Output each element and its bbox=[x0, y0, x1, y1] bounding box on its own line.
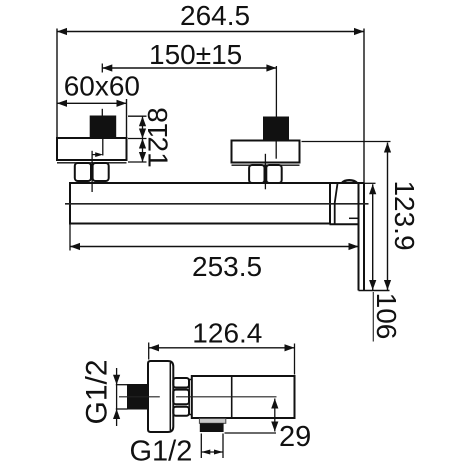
right inlet centerline inside block bbox=[275, 141, 277, 159]
handle top extension to 106 dim bbox=[364, 182, 376, 184]
svg-text:21: 21 bbox=[143, 137, 174, 168]
left inlet centerline above bbox=[101, 109, 103, 116]
tick at left end of 150±15 bbox=[101, 64, 103, 73]
handle housing right edge / lever left edge bbox=[358, 183, 360, 291]
svg-text:18: 18 bbox=[142, 107, 173, 138]
dim 126.4 line bbox=[149, 347, 295, 349]
svg-text:29: 29 bbox=[279, 421, 311, 453]
adapter diagonal at bar end bbox=[335, 184, 338, 204]
right nut centerline bbox=[264, 154, 266, 190]
extension line x126.5 bbox=[126, 99, 128, 139]
wall flange disc bbox=[148, 361, 173, 432]
dim 123.9 top extension bbox=[302, 141, 391, 143]
bar centerline bbox=[65, 203, 369, 205]
G1/2 inlet dim shaft and arrows bbox=[116, 368, 118, 426]
dim 253.5 left extension bbox=[69, 224, 71, 251]
outlet dim extension lines bbox=[200, 434, 202, 459]
left hex nut facet B bbox=[93, 163, 109, 181]
left nut centerline bbox=[91, 151, 93, 192]
dim 123.9 line bbox=[387, 143, 389, 291]
dim 18/21 extension lines bbox=[128, 115, 147, 117]
right wall plate bbox=[232, 141, 300, 163]
svg-text:106: 106 bbox=[371, 293, 402, 340]
svg-text:150±15: 150±15 bbox=[149, 39, 242, 70]
lever bottom + extension line bbox=[359, 290, 390, 292]
outlet diameter double arrow bbox=[201, 451, 223, 453]
right inlet square (black) bbox=[263, 117, 289, 141]
left wall plate lower flange line bbox=[57, 162, 127, 164]
body divider line bbox=[231, 376, 233, 418]
svg-text:60x60: 60x60 bbox=[64, 71, 140, 102]
left inlet square (black) bbox=[90, 116, 117, 139]
dim 29 bottom extension bbox=[225, 432, 277, 434]
axis centerline bbox=[119, 396, 160, 398]
valve body bbox=[192, 376, 295, 418]
mixer body bar bbox=[70, 183, 330, 224]
right hex nut facet A bbox=[249, 165, 264, 183]
dim 106 tail below bbox=[372, 292, 374, 342]
side hex nut facet bottom bbox=[173, 407, 189, 416]
svg-text:126.4: 126.4 bbox=[192, 318, 262, 349]
dim 18/21 shaft bbox=[142, 116, 144, 162]
left eccentric offset arrow bbox=[92, 154, 96, 156]
svg-text:264.5: 264.5 bbox=[180, 0, 250, 31]
dim 106 line bbox=[372, 184, 374, 290]
housing bottom bbox=[330, 223, 359, 225]
extension line right x364 bbox=[363, 29, 365, 184]
svg-text:123.9: 123.9 bbox=[389, 180, 420, 250]
svg-text:G1/2: G1/2 bbox=[130, 436, 193, 468]
left wall plate (60x60 block) bbox=[57, 138, 127, 160]
dim 60x60 line bbox=[57, 102, 127, 104]
flange inner line bbox=[169, 363, 171, 431]
dim 150±15 line bbox=[102, 67, 276, 69]
left inlet centerline inside block bbox=[102, 138, 104, 156]
outlet collar (gray) bbox=[199, 419, 225, 424]
svg-text:253.5: 253.5 bbox=[192, 251, 262, 282]
washer ring bbox=[189, 380, 192, 415]
extension / centerline to right inlet bbox=[275, 66, 277, 117]
dim 264.5 line bbox=[57, 31, 364, 33]
housing ledge bbox=[349, 217, 359, 219]
right wall plate lower flange line bbox=[232, 164, 300, 166]
outlet thread (black) bbox=[200, 423, 224, 432]
inlet thread pipe (black) bbox=[127, 384, 148, 410]
adapter left edge bbox=[334, 203, 336, 225]
svg-text:G1/2: G1/2 bbox=[81, 359, 114, 424]
handle bump curve bbox=[342, 180, 357, 183]
dim 253.5 line bbox=[70, 246, 359, 248]
left hex nut facet A bbox=[75, 163, 91, 181]
handle top line bbox=[330, 182, 364, 184]
extension line left (block left edge extension) bbox=[56, 29, 58, 140]
side hex nut facet top bbox=[173, 378, 189, 388]
right hex nut facet B bbox=[266, 165, 281, 183]
G1/2 inlet dim extension lines bbox=[116, 384, 128, 386]
dim 126.4 extensions bbox=[148, 343, 150, 360]
side hex nut facet mid bbox=[173, 390, 189, 405]
dim 29 shaft and arrows bbox=[274, 399, 276, 432]
